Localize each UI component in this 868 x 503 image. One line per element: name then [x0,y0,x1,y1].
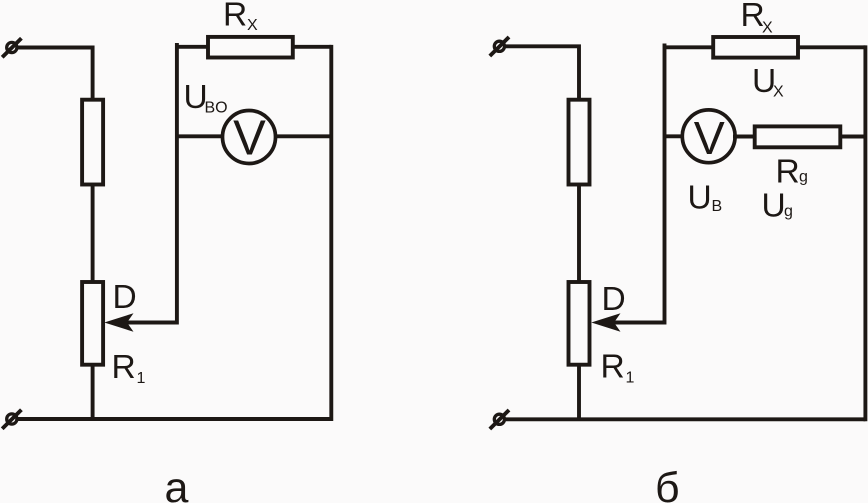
wiper arrow D (circuit b) [591,313,664,332]
svg-text:R: R [223,0,247,33]
voltmeter V (circuit a) [223,111,276,166]
svg-text:б: б [655,464,680,503]
svg-text:D: D [602,281,626,318]
svg-text:1: 1 [626,370,635,387]
potentiometer R1 body (circuit b) [569,282,590,365]
svg-text:U: U [762,187,786,224]
svg-text:R: R [776,154,800,191]
wire (top terminal to divider top corner, circuit b) [503,46,579,99]
svg-text:B: B [712,198,723,215]
wire (resistor to potentiometer, circuit b) [577,185,581,283]
svg-text:D: D [113,279,137,316]
wiper arrow D (circuit a) [104,313,177,332]
wire (resistor to potentiometer, circuit a) [91,185,95,283]
svg-text:BO: BO [205,100,228,117]
wire (potentiometer to bottom rail, circuit a) [91,365,95,420]
terminal (bottom input, circuit a) [2,410,21,429]
svg-text:R: R [601,349,625,386]
wire (voltmeter to right rail, circuit a) [274,134,331,138]
label RX (circuit b) [741,0,774,37]
resistor RX (circuit b) [713,37,798,58]
svg-text:X: X [773,84,784,101]
wire (right rail, circuit b) [863,47,867,419]
terminal (top input, circuit a) [2,38,21,57]
voltmeter V (circuit b) [682,110,735,164]
resistor Rg (circuit b) [755,126,841,147]
svg-text:g: g [799,169,808,186]
label RX (circuit a) [223,0,258,34]
label R1 (circuit a) [112,349,146,387]
wire (top terminal to divider top corner, circuit a) [16,48,93,100]
wire (bottom rail, circuit a) [16,417,332,421]
label Ug (circuit b) [762,187,793,224]
resistor (upper divider arm, circuit b) [569,100,590,185]
label R1 (circuit b) [601,349,635,387]
svg-text:а: а [165,464,189,503]
terminal (bottom input, circuit b) [490,410,509,429]
label Rg (circuit b) [776,154,808,191]
wire (RX to right rail, circuit b) [799,45,866,49]
svg-text:U: U [688,180,712,217]
svg-text:X: X [762,20,773,37]
resistor (upper divider arm, circuit a) [82,100,103,185]
svg-text:X: X [247,17,258,34]
wire (potentiometer to bottom rail, circuit b) [577,365,581,420]
wire (measuring loop left rail, circuit a) [175,45,179,323]
svg-text:g: g [784,203,793,220]
wire (loop to voltmeter, circuit b) [665,134,684,138]
label UB (circuit b) [688,180,723,217]
svg-text:R: R [112,349,136,386]
wire (loop to voltmeter, circuit a) [177,134,224,138]
wire (loop top left to RX, circuit b) [665,45,713,49]
svg-text:V: V [233,111,266,165]
wire (right rail, circuit a) [329,47,333,419]
label UX (circuit b) [752,63,784,101]
svg-text:V: V [694,112,725,164]
wire (RX to right rail, circuit a) [294,45,332,49]
label UBO (circuit a) [184,79,228,117]
resistor RX (circuit a) [208,37,293,58]
wire (measuring loop left rail, circuit b) [663,46,667,323]
wire (bottom rail, circuit b) [503,417,865,421]
svg-text:1: 1 [137,370,146,387]
potentiometer R1 body (circuit a) [82,282,103,365]
wire (loop top left to RX, circuit a) [177,45,207,49]
wire (voltmeter to Rg, circuit b) [733,135,755,139]
wire (Rg to right rail, circuit b) [839,135,865,139]
terminal (top input, circuit b) [490,37,509,56]
